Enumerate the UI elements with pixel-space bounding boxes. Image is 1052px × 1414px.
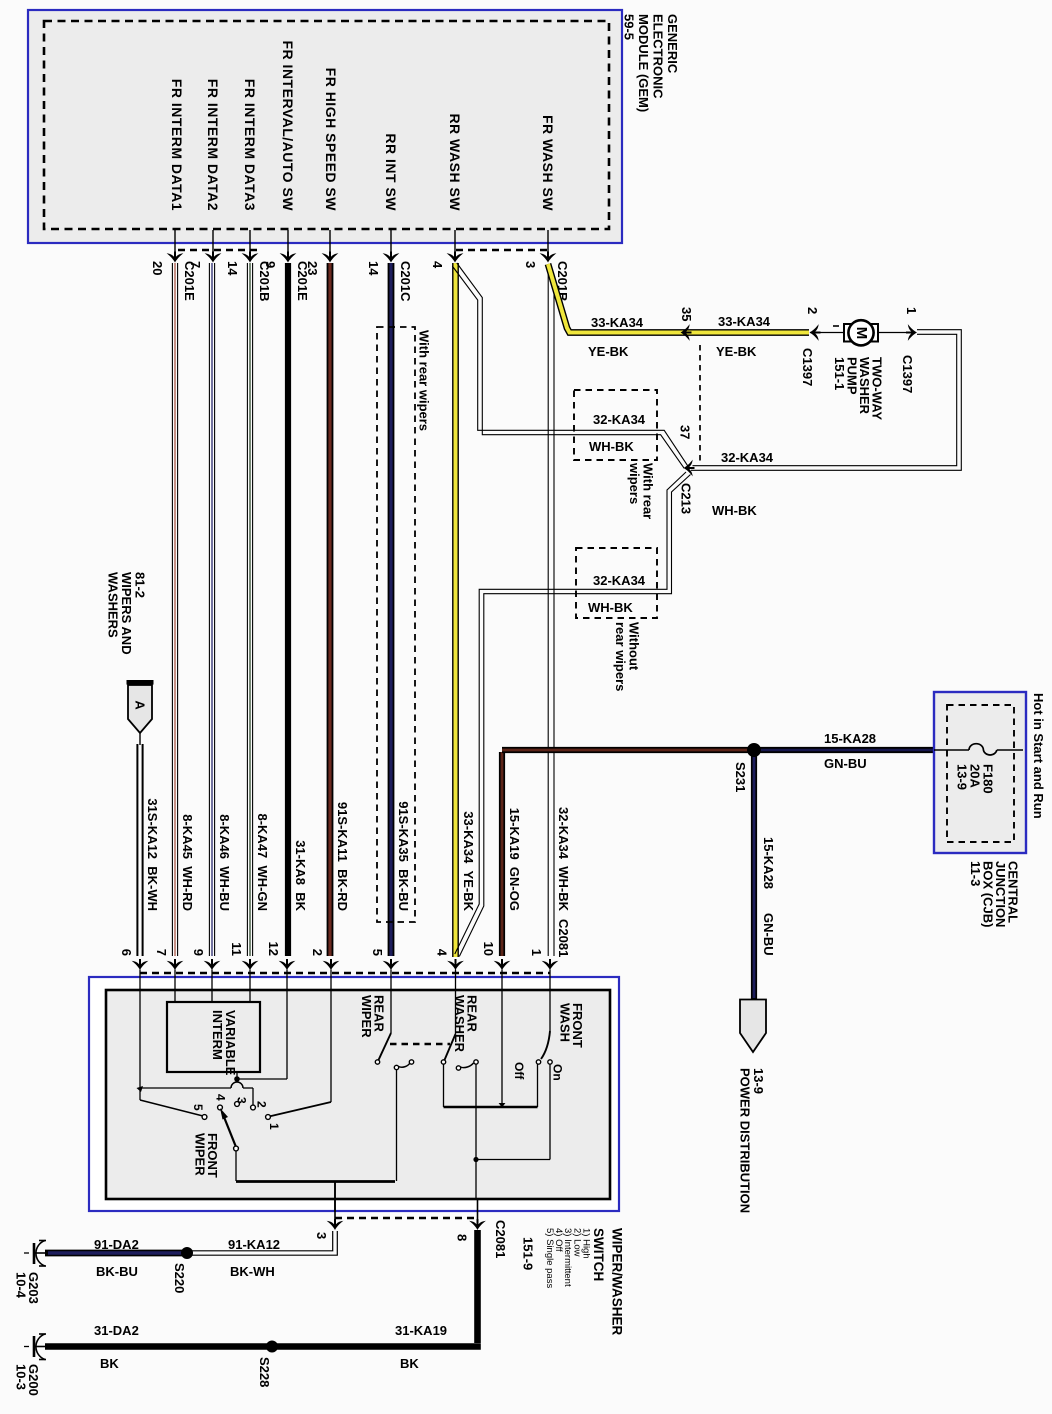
dashed connector link line C2081 bottom pins: [335, 1217, 478, 1219]
svg-text:C1397: C1397: [900, 355, 915, 393]
switch pin 10 arrow: [494, 959, 511, 970]
svg-text:1: 1: [267, 1123, 281, 1130]
washer pump pin 2 arrow: [810, 324, 821, 341]
pin 6 wire inside switch: [139, 991, 141, 1100]
diagonal to contact 5: [140, 1100, 203, 1116]
rear washer fixed contact: [474, 1060, 478, 1064]
wire 31S-KA12 BK-WH (A-arrow to switch pin 6): [136, 744, 138, 956]
wire below A arrow: [139, 733, 141, 745]
svg-text:8-KA47 WH-GN: 8-KA47 WH-GN: [255, 813, 270, 911]
pin 11 wire into VARIABLE INTERM: [249, 991, 251, 1002]
wire 15-KA19 GN-OG vertical (S231 to switch pin 10): [499, 752, 505, 956]
wire 32-KA34 WH-BK branch with rear wipers (GEM pin 4 to C213 pin 37): [452, 266, 688, 466]
front wiper common bus wire: [140, 1087, 231, 1089]
power distribution off-page arrow: [740, 1000, 766, 1053]
svg-text:FRONTWIPER: FRONTWIPER: [192, 1133, 220, 1178]
svg-text:31-KA8 BK: 31-KA8 BK: [293, 840, 308, 911]
svg-text:2: 2: [310, 949, 325, 956]
wire junction to On contact riser: [476, 1159, 550, 1161]
switch pin 6 arrow: [132, 959, 149, 970]
svg-text:M: M: [853, 327, 870, 340]
wire 31-KA19 BK (switch pin 8 to S228): [474, 1230, 481, 1343]
wire 31-DA2 BK (S228 to ground G200): [45, 1343, 272, 1350]
svg-text:FR HIGH SPEED SW: FR HIGH SPEED SW: [323, 68, 339, 212]
svg-text:3: 3: [523, 261, 538, 268]
wire 32-KA34 WH-BK double line (GEM pin 3 to switch pin 1): [547, 264, 549, 956]
svg-text:BK: BK: [100, 1356, 119, 1371]
pin 1 wire inside switch: [549, 991, 551, 1031]
svg-text:C201C: C201C: [398, 261, 413, 302]
front wash On contact: [548, 1060, 552, 1064]
washer feed bus wire: [444, 1106, 538, 1109]
wire 32-KA34 WH-BK pump return loop (pin1 right, down, left to C213): [691, 330, 961, 471]
wiper/washer switch inner box: [106, 990, 610, 1199]
svg-text:FR INTERVAL/AUTO SW: FR INTERVAL/AUTO SW: [280, 41, 296, 212]
dashed mechanical link rear wiper-washer: [390, 1043, 450, 1045]
wire pivot to bottom bus: [235, 1151, 237, 1181]
svg-text:GN-BU: GN-BU: [824, 756, 867, 771]
dashed inline connector boundary between pins 35 and 37: [699, 345, 701, 461]
svg-text:151-9: 151-9: [520, 1237, 535, 1270]
GEM pin 23 stub wire: [329, 230, 331, 259]
svg-text:S231: S231: [733, 762, 748, 792]
junction tick at pin 10 and washer feed bus: [499, 1103, 506, 1108]
front wiper common bus wire (right): [243, 1087, 253, 1089]
svg-text:11: 11: [229, 942, 244, 956]
GEM pin 14 stub wire: [390, 230, 392, 259]
rear wiper switch arm: [379, 1033, 392, 1060]
svg-text:14: 14: [225, 261, 240, 276]
svg-text:8-KA46 WH-BU: 8-KA46 WH-BU: [217, 814, 232, 911]
svg-text:4: 4: [430, 261, 445, 269]
splice S231: [747, 743, 761, 757]
switch pin 9 arrow: [204, 959, 221, 970]
switch pin 4 stub: [455, 970, 457, 992]
svg-text:10: 10: [481, 942, 496, 956]
svg-text:14: 14: [366, 261, 381, 276]
switch pin 8 stub: [477, 1199, 479, 1227]
GEM pin 9 arrow: [280, 252, 297, 263]
svg-text:WH-BK: WH-BK: [712, 503, 757, 518]
svg-text:15-KA19 GN-OG: 15-KA19 GN-OG: [507, 808, 522, 911]
svg-text:15-KA28: 15-KA28: [824, 731, 876, 746]
wire 91S-KA35 BK-BU (GEM 14 to switch 5): [388, 263, 395, 956]
svg-text:C213: C213: [678, 483, 693, 514]
wire 91S-KA11 BK-RD (GEM 23 to switch 2): [327, 263, 334, 956]
svg-text:WH-BK: WH-BK: [589, 439, 634, 454]
svg-text:12: 12: [266, 942, 281, 956]
wire 8-KA45 WH-RD (GEM 20 to switch 7): [171, 263, 173, 956]
switch pin 2 arrow: [323, 959, 340, 970]
wiper/washer switch outer box: [89, 977, 619, 1211]
front wiper contact 3: [235, 1102, 240, 1107]
wire pump pin2 to motor: [810, 332, 845, 334]
splice S228: [266, 1341, 278, 1353]
dashed option box (32-KA34 with rear wipers): [574, 390, 657, 460]
riser to On contact: [549, 1064, 551, 1160]
GEM pin 14 stub wire: [249, 230, 251, 259]
svg-text:91-DA2: 91-DA2: [94, 1237, 139, 1252]
central junction box (CJB): [934, 692, 1026, 853]
rear washer switch arm: [445, 1034, 456, 1060]
svg-text:4: 4: [434, 949, 449, 957]
switch pin 12 arrow: [279, 959, 296, 970]
pivot arc of front wiper switch: [231, 1082, 243, 1088]
pin 7 wire into VARIABLE INTERM: [174, 991, 176, 1002]
svg-text:FR INTERM DATA1: FR INTERM DATA1: [169, 79, 185, 211]
svg-text:S220: S220: [172, 1263, 187, 1293]
GEM pin 7 arrow: [205, 252, 222, 263]
switch pin 5 stub: [390, 970, 392, 992]
svg-text:33-KA34: 33-KA34: [591, 315, 644, 330]
dashed connector link line (C201 pins 20-14): [178, 249, 262, 251]
svg-text:23: 23: [305, 261, 320, 275]
svg-text:With rear wipers: With rear wipers: [416, 330, 431, 431]
switch pin 3 arrow: [327, 1219, 344, 1230]
switch pin 6 stub: [139, 970, 141, 992]
svg-text:37: 37: [677, 425, 692, 439]
svg-text:2: 2: [255, 1101, 269, 1108]
svg-text:On: On: [551, 1064, 565, 1081]
svg-text:9: 9: [263, 261, 278, 268]
ground symbol G200: [33, 1336, 36, 1357]
svg-text:Hot in Start and Run: Hot in Start and Run: [1031, 693, 1046, 819]
svg-text:1: 1: [904, 307, 919, 314]
svg-text:8: 8: [454, 1234, 469, 1241]
wire 32-KA34 WH-BK branch without rear wipers (C213 down to switch pin 4): [455, 472, 686, 954]
splice S220: [181, 1247, 193, 1259]
switch pin 5 arrow: [383, 959, 400, 970]
junction at pin 8 wire: [473, 1157, 478, 1162]
GEM pin 3 arrow: [540, 252, 557, 263]
svg-text:FR WASH SW: FR WASH SW: [540, 115, 556, 211]
front wiper contact 4: [218, 1105, 223, 1110]
svg-text:RR INT SW: RR INT SW: [383, 133, 399, 211]
svg-text:FRONTWASH: FRONTWASH: [557, 1003, 585, 1048]
GEM pin 3 stub wire: [547, 230, 549, 259]
svg-text:9: 9: [191, 949, 206, 956]
VARIABLE INTERM block: [167, 1002, 260, 1072]
svg-text:15-KA28: 15-KA28: [761, 837, 776, 889]
front wiper arm pivot contact: [234, 1146, 239, 1151]
riser rear washer contact to feed bus: [443, 1064, 445, 1107]
svg-text:32-KA34: 32-KA34: [593, 573, 646, 588]
switch pin 12 stub: [286, 970, 288, 992]
washer pump pin 1 arrow: [906, 324, 917, 341]
svg-text:20: 20: [150, 261, 165, 275]
GEM pin 14 arrow: [383, 252, 400, 263]
GEM inner dashed connector boundary: [44, 21, 609, 229]
switch pin 1 arrow: [542, 959, 559, 970]
svg-text:YE-BK: YE-BK: [588, 344, 629, 359]
switch pin 11 stub: [249, 970, 251, 992]
svg-text:32-KA34 WH-BK: 32-KA34 WH-BK: [556, 807, 571, 912]
wire 15-KA19 GN-OG horizontal (switch pin10 column to S231): [502, 747, 754, 753]
wire rear wiper contact to bottom bus: [396, 1070, 398, 1181]
GEM pin 9 stub wire: [287, 230, 289, 259]
svg-text:C2081: C2081: [556, 919, 571, 957]
GEM pin 20 stub wire: [174, 230, 176, 259]
svg-text:C2081: C2081: [493, 1220, 508, 1258]
svg-text:4: 4: [214, 1094, 228, 1101]
svg-text:REARWIPER: REARWIPER: [359, 995, 387, 1038]
wire 8-KA46 WH-BU (GEM 7 to switch 9): [208, 263, 210, 956]
wire 31-KA8 BK (GEM 9 to switch 12): [285, 263, 291, 956]
svg-text:91-KA12: 91-KA12: [228, 1237, 280, 1252]
svg-text:91S-KA11 BK-RD: 91S-KA11 BK-RD: [335, 802, 350, 911]
svg-text:31-DA2: 31-DA2: [94, 1323, 139, 1338]
switch bottom bus wire (to pin 3): [236, 1180, 395, 1183]
switch pin 8 arrow: [469, 1219, 486, 1230]
switch pin 7 stub: [174, 970, 176, 992]
fuse F180 20A: [934, 749, 969, 751]
switch pin 3 stub: [334, 1212, 336, 1227]
ground symbol G203: [33, 1243, 36, 1264]
svg-text:A: A: [133, 700, 148, 710]
junction tick at pin6 corner: [137, 1086, 144, 1092]
inline connector pin 35 arrow: [681, 324, 692, 341]
CJB inner dashed boundary: [947, 705, 1014, 842]
rear washer contact arc: [461, 1063, 474, 1068]
switch pin 10 stub: [501, 970, 503, 992]
wire motor to pump pin 1: [878, 332, 908, 334]
switch pin 1 stub: [549, 970, 551, 992]
svg-text:BK-WH: BK-WH: [230, 1264, 275, 1279]
riser to Off contact: [537, 1064, 539, 1107]
front wiper contact 2: [251, 1105, 256, 1110]
pin 5 wire inside switch: [390, 991, 392, 1033]
VARIABLE INTERM bottom stub: [236, 1072, 238, 1079]
GEM pin 4 arrow: [447, 252, 464, 263]
dashed connector link line C2081 top pins: [140, 972, 550, 974]
wire 8-KA47 WH-GN (GEM 14 to switch 11): [246, 263, 248, 956]
svg-text:32-KA34: 32-KA34: [593, 412, 646, 427]
dashed option box (32-KA34 without rear wipers): [576, 548, 657, 618]
svg-text:GN-BU: GN-BU: [761, 913, 776, 956]
wire 15-KA28 GN-BU vertical (S231 down to power distribution): [751, 753, 757, 1000]
svg-text:7: 7: [154, 949, 169, 956]
wire 91-DA2 BK-BU (S220 to ground G203): [45, 1250, 187, 1257]
svg-text:7: 7: [188, 261, 203, 268]
svg-text:5: 5: [370, 949, 385, 956]
pin 10 wire inside switch: [501, 991, 503, 1106]
switch pin 7 arrow: [167, 959, 184, 970]
front wash Off contact: [536, 1060, 540, 1064]
front wash switch arm: [541, 1031, 550, 1059]
svg-text:FR INTERM DATA3: FR INTERM DATA3: [242, 79, 258, 211]
rear washer contact (arm end): [441, 1060, 445, 1064]
GEM pin 23 arrow: [322, 252, 339, 263]
pin 3 wire to box bottom: [334, 1182, 336, 1213]
pin 12 wire inside switch: [286, 991, 288, 1079]
svg-text:S228: S228: [257, 1357, 272, 1387]
svg-text:32-KA34: 32-KA34: [721, 450, 774, 465]
svg-text:BK-BU: BK-BU: [96, 1264, 138, 1279]
svg-text:Off: Off: [512, 1062, 526, 1080]
svg-text:2: 2: [805, 307, 820, 314]
node A source arrow symbol: [128, 685, 152, 733]
rear wiper contact arc: [399, 1063, 411, 1067]
rear wiper contact (arm end): [375, 1060, 379, 1064]
svg-text:8-KA45 WH-RD: 8-KA45 WH-RD: [180, 814, 195, 911]
svg-text:35: 35: [679, 307, 694, 321]
pin 8 wire inside switch: [475, 1064, 477, 1199]
dashed connector link line (C201B pins 4-3): [456, 249, 548, 251]
rear wiper moving contact: [394, 1065, 398, 1069]
svg-text:BK: BK: [400, 1356, 419, 1371]
diagonal pin2 to contact 1: [269, 1102, 331, 1117]
GEM module box (GENERIC ELECTRONIC MODULE): [28, 10, 622, 243]
front wiper moving arm: [222, 1112, 236, 1147]
svg-text:31S-KA12 BK-WH: 31S-KA12 BK-WH: [145, 798, 160, 911]
junction dot below VARIABLE INTERM: [234, 1076, 240, 1082]
GEM pin 4 stub wire: [454, 230, 456, 259]
front wiper contact 5: [202, 1115, 207, 1120]
motor polarity tick: [833, 325, 839, 327]
wire dot to pin 12 column: [237, 1078, 287, 1080]
pin 4 wire inside switch: [455, 991, 457, 1034]
switch pin 2 stub: [330, 970, 332, 992]
svg-text:6: 6: [119, 949, 134, 956]
svg-text:33-KA34: 33-KA34: [718, 314, 771, 329]
svg-text:33-KA34 YE-BK: 33-KA34 YE-BK: [461, 811, 476, 911]
svg-text:3: 3: [314, 1232, 329, 1239]
wire 33-KA34 YE-BK vertical (to switch pin 4): [452, 263, 459, 957]
wire 91-KA12 BK-WH (switch pin 3 to S220): [187, 1231, 333, 1251]
front wiper contact 1: [266, 1115, 271, 1120]
svg-text:YE-BK: YE-BK: [716, 344, 757, 359]
svg-text:3: 3: [235, 1097, 249, 1104]
switch pin 9 stub: [211, 970, 213, 992]
drop to contact 2: [252, 1088, 254, 1105]
dashed option box around 91S-KA35 wire (with rear wipers): [377, 327, 415, 922]
pin 9 wire into VARIABLE INTERM: [211, 991, 213, 1002]
pin 2 wire inside switch: [330, 991, 332, 1102]
rear wiper fixed contact: [409, 1060, 413, 1064]
svg-text:RR WASH SW: RR WASH SW: [447, 113, 463, 211]
svg-text:31-KA19: 31-KA19: [395, 1323, 447, 1338]
GEM pin 20 arrow: [167, 252, 184, 263]
switch pin 4 arrow: [447, 959, 464, 970]
svg-text:91S-KA35 BK-BU: 91S-KA35 BK-BU: [396, 801, 411, 911]
svg-text:5: 5: [191, 1104, 205, 1111]
svg-text:C1397: C1397: [800, 348, 815, 386]
wire 33-KA34 YE-BK diagonal+horizontal (GEM pin 3 to washer pump pin 2): [548, 264, 809, 333]
switch pin 11 arrow: [242, 959, 259, 970]
GEM pin 14 arrow: [242, 252, 259, 263]
svg-text:WH-BK: WH-BK: [588, 600, 633, 615]
wire 15-KA28 GN-BU horizontal (S231 to CJB): [754, 747, 934, 753]
GEM pin 7 stub wire: [212, 230, 214, 259]
connector C213 pin 37 arrow: [684, 460, 695, 477]
rear washer moving contact: [456, 1066, 460, 1070]
svg-text:1: 1: [529, 949, 544, 956]
svg-text:FR INTERM DATA2: FR INTERM DATA2: [205, 79, 221, 211]
